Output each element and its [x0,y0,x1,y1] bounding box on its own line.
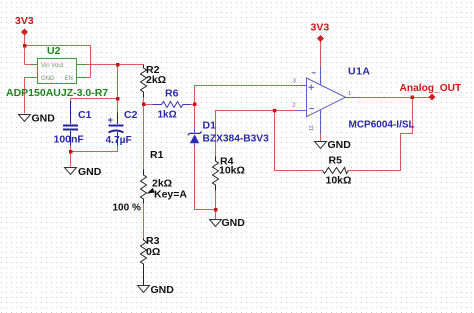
svg-text:1: 1 [348,91,351,97]
svg-text:C1: C1 [78,109,92,121]
svg-text:D1: D1 [203,120,217,132]
svg-text:100 %: 100 % [113,203,141,214]
svg-text:2kΩ: 2kΩ [146,74,166,86]
svg-text:GND: GND [78,166,102,178]
svg-text:3: 3 [293,79,296,85]
svg-text:1kΩ: 1kΩ [158,110,177,121]
svg-text:GND: GND [328,139,352,151]
svg-text:R6: R6 [165,88,179,100]
svg-text:R1: R1 [150,149,164,161]
svg-text:U2: U2 [47,45,61,57]
svg-text:2: 2 [293,103,296,109]
svg-text:3V3: 3V3 [15,15,34,27]
svg-text:0Ω: 0Ω [146,246,160,258]
svg-text:Key=A: Key=A [154,189,187,201]
svg-text:ADP150AUJZ-3.0-R7: ADP150AUJZ-3.0-R7 [6,87,108,99]
svg-text:R5: R5 [329,155,343,167]
svg-text:BZX384-B3V3: BZX384-B3V3 [203,134,270,145]
svg-text:GND: GND [32,113,56,125]
svg-text:U1A: U1A [348,66,371,78]
svg-text:GND: GND [151,284,175,296]
svg-text:4: 4 [312,71,318,74]
svg-text:100nF: 100nF [54,134,85,146]
svg-text:Analog_OUT: Analog_OUT [400,83,462,94]
svg-text:MCP6004-I/SL: MCP6004-I/SL [349,120,415,131]
svg-text:EN: EN [65,76,73,82]
svg-text:GND: GND [222,217,246,229]
svg-text:3V3: 3V3 [311,22,330,34]
svg-text:10kΩ: 10kΩ [219,165,245,177]
svg-text:10kΩ: 10kΩ [326,175,352,187]
svg-text:11: 11 [309,125,315,131]
svg-text:C2: C2 [124,109,138,121]
svg-text:Vin Vout: Vin Vout [41,63,64,69]
svg-text:4.7µF: 4.7µF [106,135,132,146]
svg-text:GND: GND [41,76,55,82]
